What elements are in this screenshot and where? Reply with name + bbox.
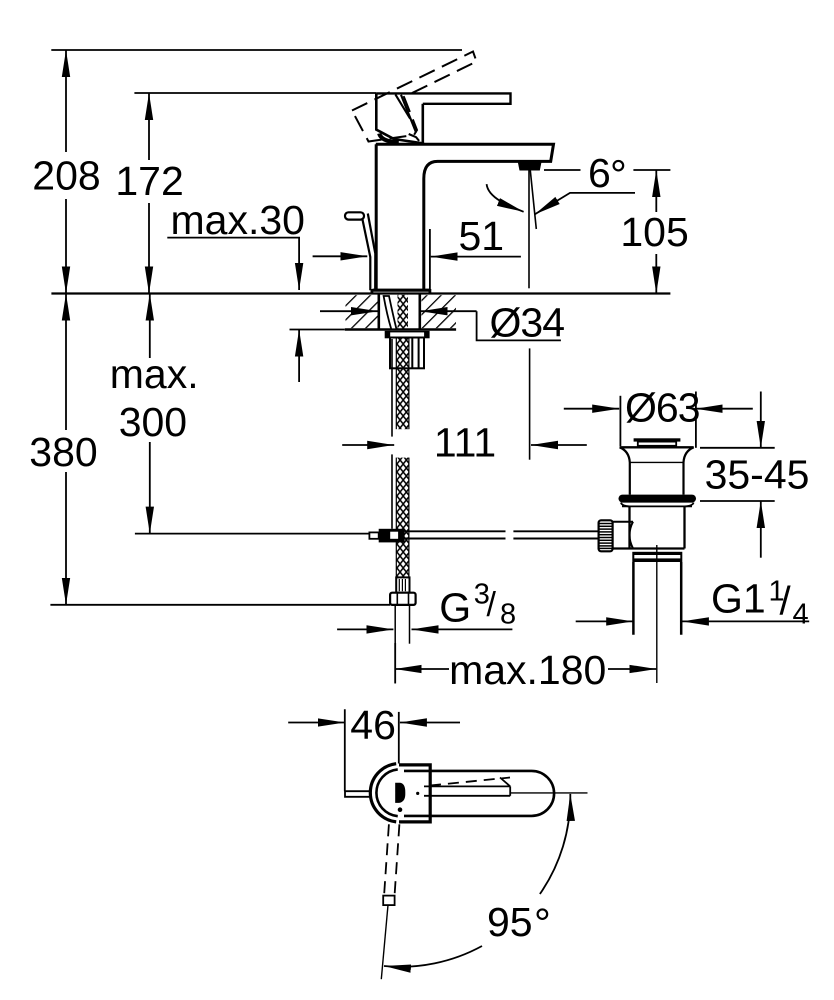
pop-up waste flange xyxy=(620,446,694,448)
svg-text:G1: G1 xyxy=(711,576,766,622)
plan view cartridge blob xyxy=(395,783,405,803)
horizontal rod segment B xyxy=(513,531,598,538)
plan view dots xyxy=(416,792,419,795)
svg-text:300: 300 xyxy=(119,399,187,445)
svg-text:max.30: max.30 xyxy=(171,197,305,243)
knob mount boss xyxy=(613,522,685,549)
waste body xyxy=(621,503,630,507)
dimension max.180 xyxy=(394,643,396,683)
svg-text:Ø34: Ø34 xyxy=(490,300,565,346)
plan view lever dashed open pos xyxy=(430,778,510,786)
hose crimp collar xyxy=(396,577,409,592)
dimension 208 xyxy=(65,50,67,294)
plan view lever inner lines xyxy=(424,778,510,796)
pop-up vertical rod xyxy=(391,339,393,437)
hose bend in hole xyxy=(384,296,397,329)
svg-text:Ø63: Ø63 xyxy=(625,385,700,431)
supply hose lower xyxy=(396,458,409,578)
6 deg angle arc arrow xyxy=(487,184,524,212)
dashed handle raised position xyxy=(352,52,477,142)
dimension G3/8 xyxy=(337,628,393,630)
extension line rod level ref xyxy=(135,533,370,535)
dimension 51 xyxy=(429,229,431,291)
svg-text:°: ° xyxy=(610,151,627,198)
supply hose upper xyxy=(396,338,409,430)
waste tailpipe xyxy=(632,562,635,635)
plan view horizontal centerline xyxy=(510,792,588,794)
svg-text:46: 46 xyxy=(350,702,396,748)
deck hole walls xyxy=(377,295,380,330)
drain centerline xyxy=(656,545,658,683)
deck surface line xyxy=(51,292,670,294)
extension line bottom (hose end ref) xyxy=(50,604,390,606)
svg-text:111: 111 xyxy=(434,420,496,466)
plan view lever collar xyxy=(383,896,394,906)
shank braid in hole xyxy=(398,295,409,330)
svg-text:95: 95 xyxy=(487,899,533,945)
plan view lever axis line xyxy=(381,905,388,979)
svg-text:35-45: 35-45 xyxy=(705,452,810,498)
svg-text:8: 8 xyxy=(500,599,516,631)
svg-text:6: 6 xyxy=(588,150,611,196)
base plate xyxy=(372,290,430,293)
svg-text:°: ° xyxy=(534,900,551,947)
handle lever xyxy=(376,93,510,144)
svg-text:max.: max. xyxy=(110,351,199,397)
G3/8 hose nut xyxy=(390,593,416,605)
waste coupling nut xyxy=(632,552,682,562)
95 deg arc xyxy=(540,794,570,894)
plan view inner arc xyxy=(376,769,397,816)
svg-text:/: / xyxy=(780,580,792,624)
plan view lever pill xyxy=(404,771,554,816)
dimension 172 xyxy=(148,93,150,294)
dimension 35-45 xyxy=(700,447,775,449)
svg-text:max.180: max.180 xyxy=(449,647,606,693)
aerator xyxy=(518,162,542,171)
svg-text:/: / xyxy=(487,586,497,624)
plan view body square xyxy=(399,765,430,822)
dimension max.300 xyxy=(149,294,151,534)
svg-text:G: G xyxy=(439,584,471,630)
knurled adjuster knob xyxy=(599,520,613,551)
extension line top (overall height ref) xyxy=(51,49,462,51)
extension line handle-top ref xyxy=(134,92,376,94)
mounting nut xyxy=(390,338,424,369)
dimension diam 34 with leader xyxy=(320,310,378,312)
dimension G1 1/4 xyxy=(576,620,634,622)
svg-text:51: 51 xyxy=(458,213,504,259)
dimension 380 xyxy=(65,294,67,605)
plan view dashed lever down position xyxy=(384,824,389,893)
pop-up linkage pivot block xyxy=(379,529,405,543)
svg-text:208: 208 xyxy=(32,153,100,199)
pop-up waste cap xyxy=(634,438,681,441)
water stream line xyxy=(530,171,536,230)
handle pivot arc xyxy=(379,134,399,143)
washer under deck xyxy=(386,332,429,338)
handle internal edges xyxy=(395,94,419,140)
plan view pop-up stub xyxy=(345,791,371,797)
G3/8 tube end xyxy=(394,605,396,684)
dimension 111 xyxy=(342,444,394,446)
dimension diam 63 xyxy=(619,396,621,446)
deck cross-section with hatching xyxy=(346,295,379,328)
dimension 46 xyxy=(344,709,346,791)
faucet body outline xyxy=(372,144,554,293)
vertical stream reference line xyxy=(528,170,530,289)
svg-text:105: 105 xyxy=(620,209,688,255)
plan view escutcheon outer arc xyxy=(370,764,396,822)
pop-up rod above deck xyxy=(345,212,375,290)
leader arrow to pop-up rod xyxy=(313,255,368,257)
svg-text:380: 380 xyxy=(29,429,97,475)
pop-up linkage rod cap xyxy=(369,532,378,538)
svg-text:4: 4 xyxy=(793,598,809,630)
O-ring seal xyxy=(619,495,697,503)
dimension 105 xyxy=(655,170,657,294)
horizontal rod segment A xyxy=(405,531,506,538)
